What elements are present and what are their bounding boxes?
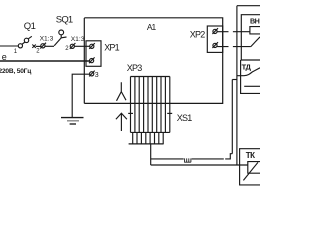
wire V vertical to TD node	[236, 6, 238, 166]
box TK (thermal contact)	[240, 149, 260, 185]
pin 2 of XP1	[89, 57, 95, 63]
pin 1 of XP2	[212, 28, 218, 34]
svg-text:ТД: ТД	[242, 62, 252, 71]
svg-text:3: 3	[95, 72, 99, 79]
svg-text:ТК: ТК	[246, 151, 255, 160]
pin 3 of XP1	[89, 71, 95, 77]
wire P vertical	[231, 80, 233, 154]
svg-text:ВН: ВН	[250, 17, 260, 26]
pushbutton SQ1	[54, 30, 66, 46]
connector XP3 comb	[128, 77, 172, 133]
svg-text:XP2: XP2	[190, 29, 205, 39]
svg-text:A1: A1	[147, 22, 157, 32]
svg-text:XS1: XS1	[177, 113, 192, 123]
svg-text:X1:3: X1:3	[71, 36, 85, 43]
wire XP2 pin1 to heater	[217, 31, 250, 33]
heating element	[250, 27, 260, 34]
svg-text:XP3: XP3	[127, 63, 142, 73]
svg-text:SQ1: SQ1	[56, 14, 73, 25]
wire marker sh	[185, 158, 191, 162]
terminal X1:3 (right)	[70, 43, 76, 49]
wire W2 to TK	[151, 164, 248, 166]
box TD (temp sensor)	[241, 60, 260, 93]
connector XP1	[86, 41, 101, 67]
pin 2 of XP2	[212, 42, 218, 48]
svg-text:X1:3: X1:3	[40, 36, 54, 43]
wire N (neutral input)	[0, 60, 89, 62]
pin 1 of XP1	[89, 43, 95, 49]
wire L (phase input)	[0, 45, 18, 47]
wire XS1 stem down	[150, 144, 152, 165]
svg-text:220В, 50Гц: 220В, 50Гц	[0, 68, 31, 75]
wire W1 to sensor	[151, 154, 233, 159]
box BH (heater unit)	[241, 15, 260, 60]
connector XS1 teeth	[129, 132, 164, 144]
wire	[45, 45, 54, 47]
wire pin3 to ground	[72, 74, 89, 117]
wire	[36, 45, 41, 47]
ground	[61, 118, 84, 124]
plug mating arrow symbol	[116, 113, 127, 131]
socket mating fork symbol	[117, 82, 127, 101]
connector XP2	[207, 26, 222, 52]
box A1	[84, 18, 222, 104]
wire XP2 pin2 to heater	[217, 46, 251, 48]
wire to XP1 pin1	[75, 45, 90, 47]
terminal X1:3 (left)	[40, 43, 46, 49]
heater diagonal lead	[251, 37, 260, 47]
wire marker background	[184, 158, 192, 161]
sensor second lead	[244, 85, 260, 87]
wire top run	[237, 5, 260, 7]
switch Q1	[18, 36, 36, 48]
svg-text:XP1: XP1	[104, 43, 119, 53]
thermistor diagonal	[243, 162, 258, 180]
thermistor rect	[248, 162, 260, 174]
wire jog	[232, 79, 237, 81]
svg-text:Q1: Q1	[24, 21, 36, 32]
sensor curve lead	[237, 68, 260, 76]
